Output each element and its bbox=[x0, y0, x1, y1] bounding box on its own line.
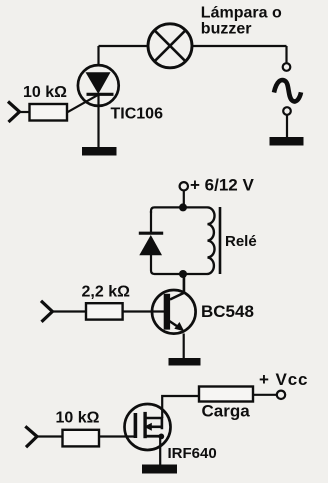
body arrow line bbox=[152, 425, 162, 428]
body arrowhead bbox=[144, 423, 152, 431]
source wire down bbox=[159, 436, 161, 465]
gate bar bbox=[134, 413, 138, 438]
SCR TIC106 body bbox=[78, 65, 119, 106]
input arrow (top circuit) bbox=[8, 102, 20, 123]
terminal (top of AC) bbox=[283, 63, 291, 71]
svg-text:+ 6/12 V: + 6/12 V bbox=[190, 175, 254, 194]
emitter arrowhead bbox=[174, 322, 184, 331]
top rail bbox=[151, 207, 208, 213]
cathode wire down bbox=[97, 94, 99, 147]
wire arrow to resistor bbox=[37, 435, 63, 437]
AC source tilde bbox=[274, 80, 301, 101]
collector wire bbox=[183, 274, 185, 294]
emitter line bbox=[169, 321, 179, 328]
resistor 10k (bottom) bbox=[63, 430, 100, 447]
ground (AC) bbox=[270, 137, 304, 146]
svg-text:10 kΩ: 10 kΩ bbox=[23, 84, 67, 101]
wire arrow to resistor bbox=[20, 111, 31, 113]
anode wire up bbox=[97, 46, 99, 66]
gate wire bbox=[99, 435, 135, 437]
input arrow (BC548) bbox=[41, 301, 52, 322]
input arrow (IRF640) bbox=[25, 426, 37, 447]
wire gate bbox=[67, 95, 98, 112]
svg-text:Lámpara o: Lámpara o bbox=[201, 4, 282, 21]
wire to lamp bbox=[99, 45, 150, 47]
ground (SCR) bbox=[82, 147, 117, 156]
junction dot top bbox=[179, 203, 187, 211]
resistor 10k (top) bbox=[30, 104, 68, 121]
svg-text:2,2 kΩ: 2,2 kΩ bbox=[82, 284, 131, 301]
svg-text:Carga: Carga bbox=[202, 402, 251, 421]
diode triangle bbox=[139, 235, 162, 255]
ground (IRF640) bbox=[142, 465, 177, 474]
lamp symbol bbox=[148, 24, 192, 68]
channel bar bbox=[143, 412, 146, 438]
BC548 body bbox=[152, 290, 196, 334]
collector line bbox=[170, 275, 184, 300]
wire terminal down bbox=[183, 191, 185, 208]
emitter wire down bbox=[183, 334, 185, 359]
svg-text:10 kΩ: 10 kΩ bbox=[56, 409, 100, 426]
SCR triangle bbox=[86, 72, 111, 94]
relay coil bbox=[208, 207, 215, 274]
SCR cathode bar bbox=[87, 93, 114, 96]
wire arrow to resistor bbox=[52, 310, 86, 312]
wire down to terminal bbox=[285, 46, 287, 63]
drain wire up bbox=[162, 396, 199, 418]
wire Carga to Vcc bbox=[253, 394, 277, 396]
Carga box bbox=[199, 387, 253, 402]
diode cathode bar bbox=[139, 232, 163, 235]
base wire bbox=[123, 310, 167, 312]
base bar bbox=[164, 294, 170, 330]
terminal +Vcc bbox=[277, 391, 285, 399]
wire to ground bbox=[286, 115, 288, 137]
terminal +6/12V bbox=[180, 182, 188, 190]
junction dot bottom bbox=[179, 270, 187, 278]
resistor 2,2k bbox=[86, 303, 123, 319]
IRF640 body bbox=[125, 404, 171, 450]
ground (BC548) bbox=[169, 358, 201, 366]
drain stub bbox=[147, 418, 162, 429]
source junction dot bbox=[158, 434, 164, 440]
svg-text:BC548: BC548 bbox=[201, 302, 254, 321]
diode top lead bbox=[150, 211, 152, 233]
svg-text:+ Vcc: + Vcc bbox=[259, 370, 308, 389]
svg-text:IRF640: IRF640 bbox=[168, 445, 217, 462]
svg-text:buzzer: buzzer bbox=[201, 21, 252, 38]
terminal (bottom of AC) bbox=[283, 107, 291, 115]
svg-text:Relé: Relé bbox=[225, 233, 257, 250]
source stub bbox=[147, 435, 163, 438]
wire lamp to right bbox=[192, 45, 287, 47]
bottom rail bbox=[151, 271, 208, 275]
relay bar bbox=[219, 207, 222, 274]
svg-text:TIC106: TIC106 bbox=[111, 106, 164, 123]
diode bottom lead bbox=[150, 255, 152, 271]
